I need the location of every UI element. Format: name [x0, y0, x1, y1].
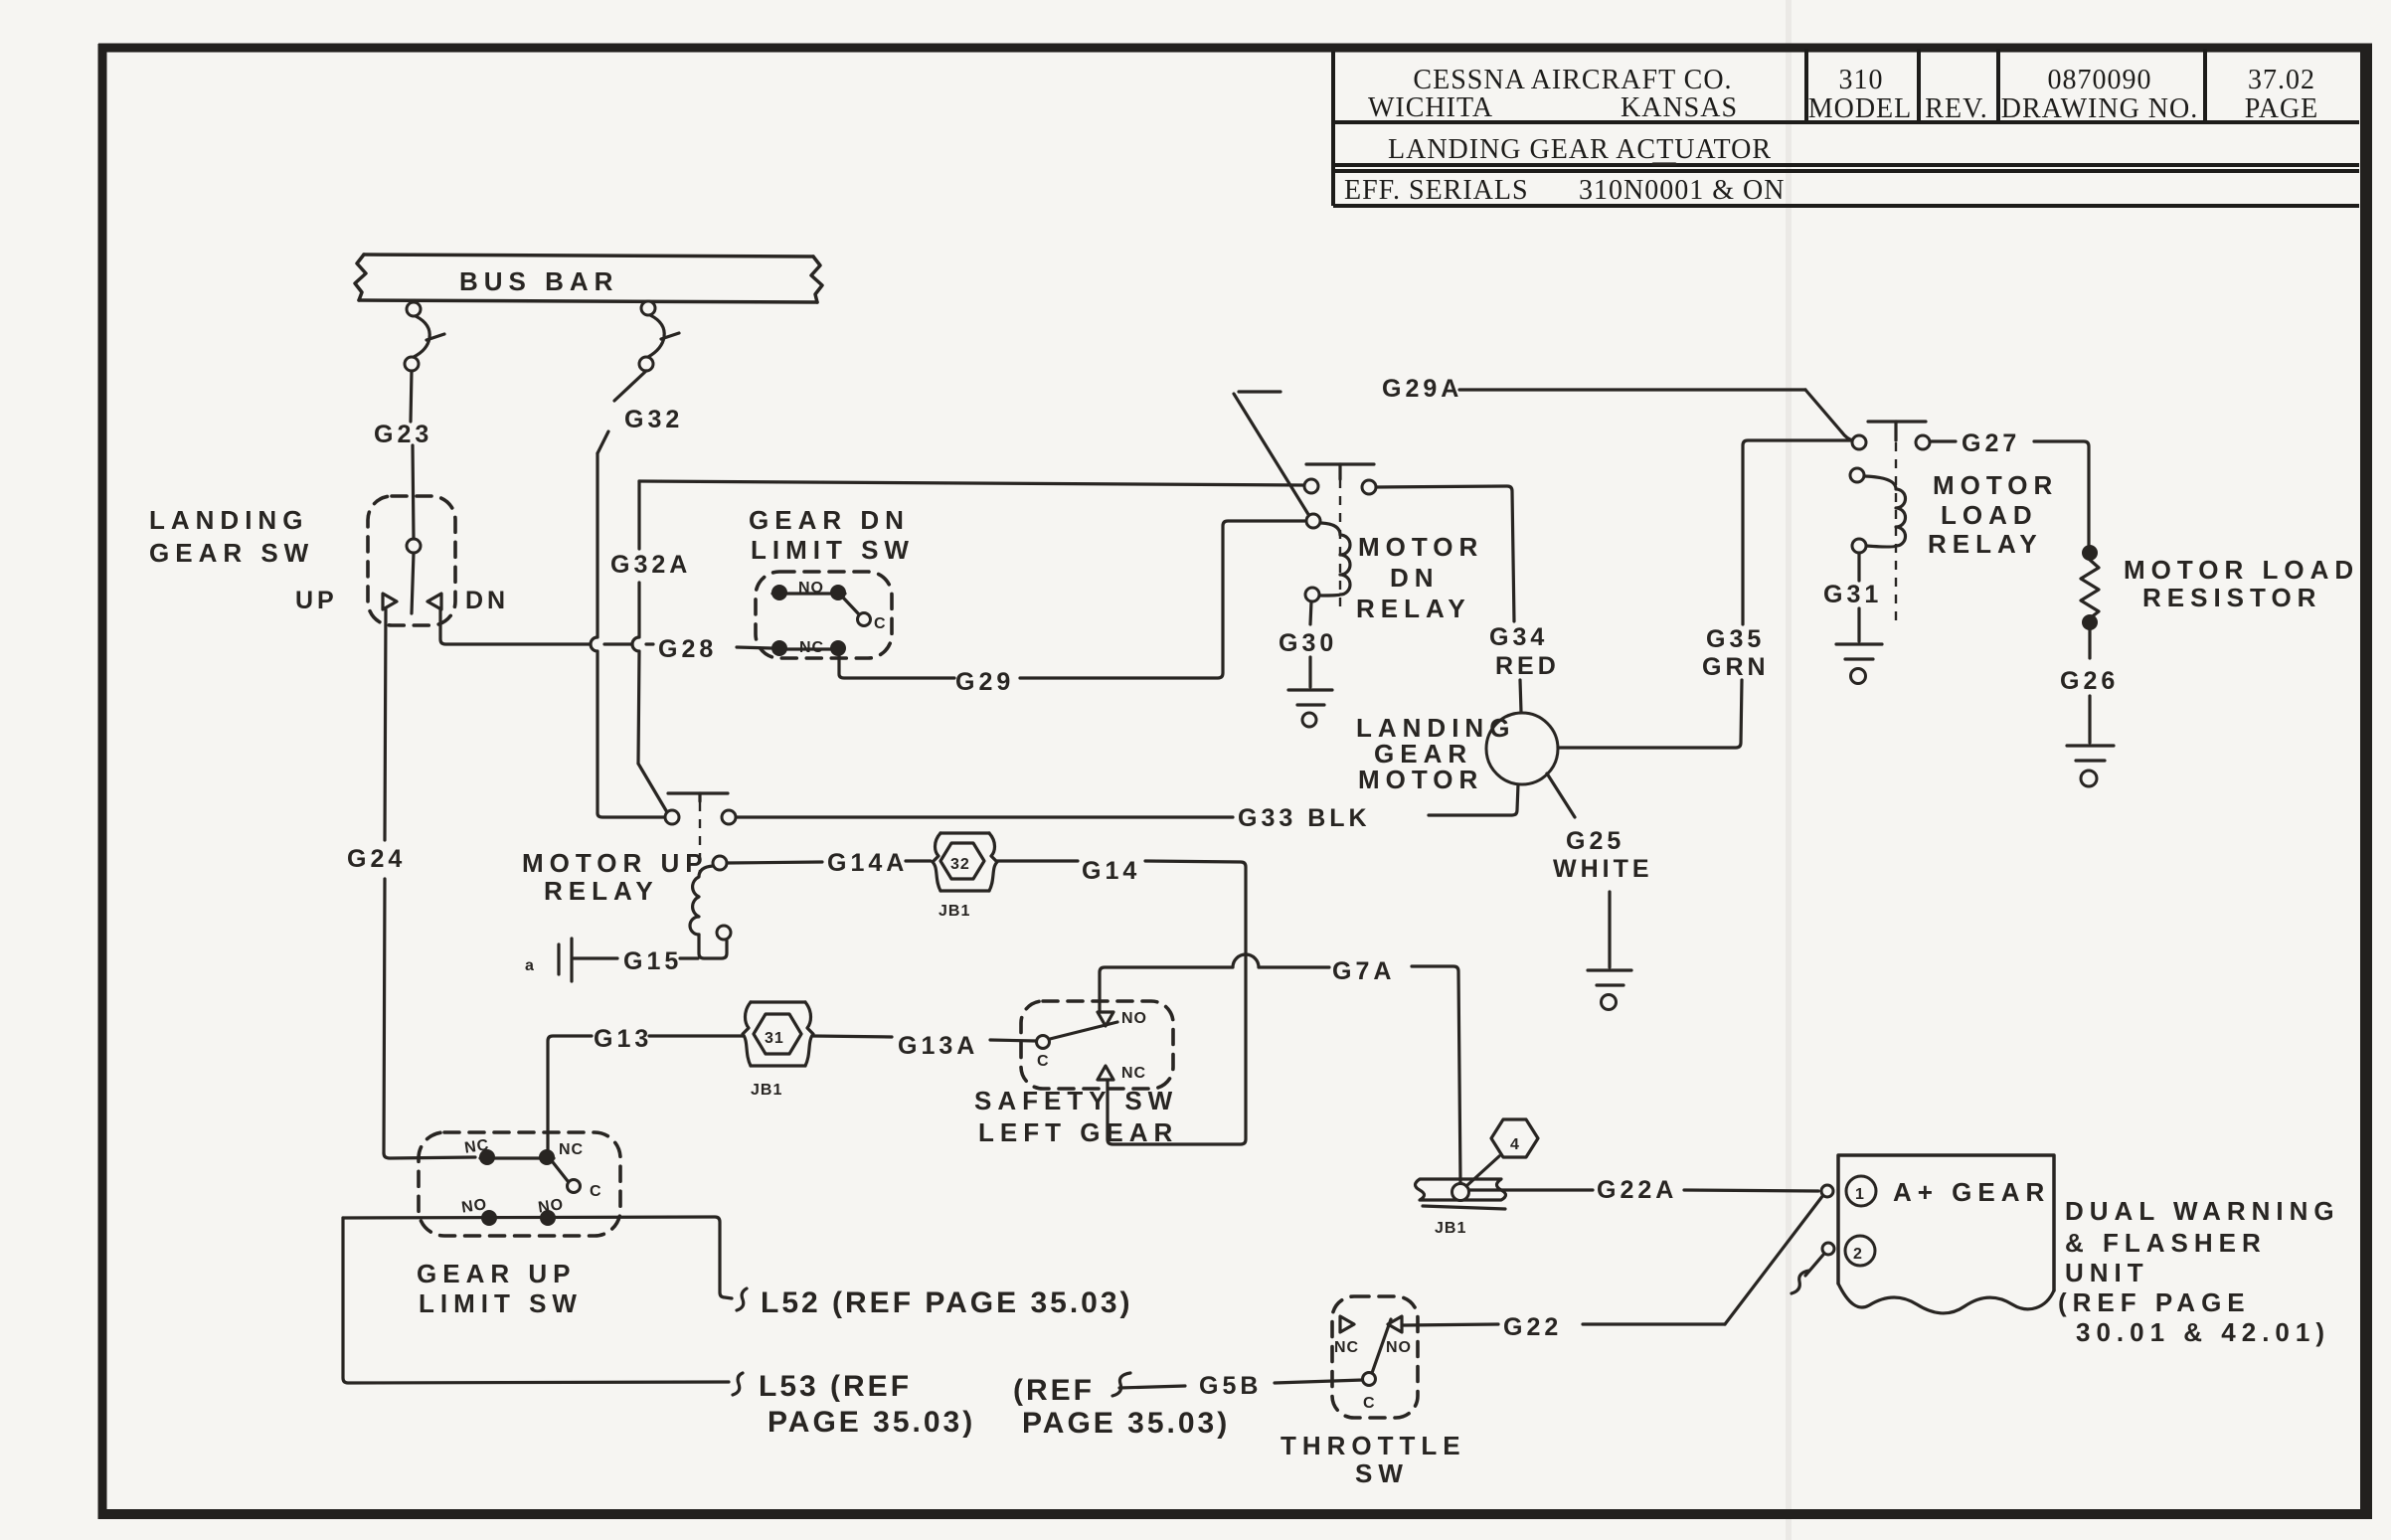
svg-text:GEAR SW: GEAR SW: [149, 538, 314, 568]
wire G25 WHITE: [1547, 773, 1653, 883]
svg-text:G22: G22: [1503, 1313, 1562, 1341]
wire G14A: [727, 849, 931, 877]
svg-text:LEFT GEAR: LEFT GEAR: [978, 1117, 1178, 1147]
svg-text:DUAL WARNING: DUAL WARNING: [2065, 1196, 2340, 1226]
svg-text:GEAR UP: GEAR UP: [417, 1259, 576, 1288]
svg-text:G33 BLK: G33 BLK: [1238, 804, 1371, 832]
svg-text:NC: NC: [463, 1136, 490, 1156]
svg-text:& FLASHER: & FLASHER: [2065, 1228, 2267, 1258]
svg-text:CESSNA AIRCRAFT CO.: CESSNA AIRCRAFT CO.: [1413, 65, 1732, 95]
svg-text:G34: G34: [1489, 623, 1548, 651]
svg-text:LIMIT SW: LIMIT SW: [419, 1288, 583, 1318]
battery and wire G15: [525, 939, 698, 981]
svg-text:C: C: [874, 615, 887, 632]
ground G25: [1588, 892, 1631, 1010]
wire G30: [1279, 601, 1337, 687]
svg-text:G26: G26: [2060, 667, 2119, 695]
svg-text:WICHITA: WICHITA: [1368, 92, 1493, 123]
svg-text:NC: NC: [1121, 1065, 1146, 1082]
landing gear motor: [1356, 713, 1558, 794]
motor load resistor: [2081, 545, 2359, 658]
svg-text:30.01 & 42.01): 30.01 & 42.01): [2076, 1317, 2330, 1347]
junction box JB1 (bottom) with hex 4: [1416, 1119, 1539, 1237]
svg-text:G13: G13: [594, 1025, 652, 1053]
wire G24: [347, 609, 475, 1158]
wire to motor dn relay (from G32A corner): [639, 481, 1303, 485]
landing gear switch: [149, 496, 509, 625]
page fold line: [1786, 0, 1792, 1540]
svg-text:G7A: G7A: [1332, 957, 1395, 985]
svg-text:SAFETY SW: SAFETY SW: [974, 1086, 1178, 1115]
svg-text:G13A: G13A: [898, 1032, 978, 1060]
wire G26: [2060, 667, 2119, 743]
svg-text:UP: UP: [295, 587, 338, 614]
svg-text:G5B: G5B: [1199, 1372, 1262, 1400]
svg-text:RESISTOR: RESISTOR: [2142, 583, 2321, 612]
throttle switch: [1281, 1296, 1466, 1488]
svg-text:1: 1: [1855, 1186, 1865, 1203]
svg-text:L53 (REF: L53 (REF: [759, 1370, 912, 1403]
svg-text:G15: G15: [623, 947, 682, 975]
bus bar: [355, 255, 822, 302]
circuit breaker (left, G23 feed): [405, 302, 444, 371]
svg-text:NO: NO: [1121, 1010, 1147, 1027]
svg-text:MODEL: MODEL: [1808, 93, 1913, 124]
svg-text:a: a: [525, 957, 535, 974]
wire G33 BLK: [737, 784, 1518, 832]
svg-text:MOTOR LOAD: MOTOR LOAD: [2124, 555, 2359, 585]
wire G14: [997, 857, 1246, 1144]
ground G26: [2067, 746, 2114, 786]
svg-text:LANDING GEAR ACTUATOR: LANDING GEAR ACTUATOR: [1388, 134, 1772, 165]
svg-text:NO: NO: [798, 580, 824, 597]
svg-text:A+ GEAR: A+ GEAR: [1893, 1177, 2050, 1207]
junction box JB1 terminal 31: [743, 1002, 813, 1099]
wire G35 GRN: [1558, 440, 1851, 748]
dual warning and flasher unit: [1792, 1155, 2340, 1347]
wire G31: [1823, 553, 1882, 641]
wire G13A: [813, 1032, 1036, 1060]
ref G5B: [1013, 1372, 1363, 1440]
wire G22: [1404, 1195, 1823, 1341]
svg-text:NC: NC: [1334, 1339, 1359, 1356]
svg-text:G29A: G29A: [1382, 375, 1462, 403]
circuit breaker (right, G32 feed): [639, 301, 679, 371]
wire G13: [548, 1025, 744, 1150]
svg-text:G29: G29: [955, 668, 1014, 696]
border frame: [98, 44, 2372, 53]
svg-text:(REF PAGE: (REF PAGE: [2058, 1287, 2251, 1317]
svg-text:310: 310: [1839, 65, 1884, 95]
ground G30: [1288, 690, 1332, 727]
svg-text:0870090: 0870090: [2048, 65, 2152, 95]
svg-text:RELAY: RELAY: [1356, 594, 1471, 623]
wire G29A: [1234, 375, 1853, 516]
svg-text:REV.: REV.: [1925, 93, 1987, 124]
svg-text:RELAY: RELAY: [544, 876, 659, 906]
svg-text:BUS BAR: BUS BAR: [459, 266, 618, 296]
svg-text:(REF: (REF: [1013, 1374, 1095, 1407]
svg-text:4: 4: [1510, 1136, 1520, 1153]
svg-text:G25: G25: [1566, 827, 1624, 855]
svg-text:LANDING: LANDING: [149, 505, 308, 535]
svg-text:G14: G14: [1082, 857, 1140, 885]
svg-text:G22A: G22A: [1597, 1176, 1677, 1204]
svg-text:PAGE 35.03): PAGE 35.03): [1022, 1407, 1230, 1440]
svg-text:NC: NC: [559, 1141, 584, 1158]
svg-text:KANSAS: KANSAS: [1621, 92, 1738, 123]
svg-text:MOTOR: MOTOR: [1358, 532, 1483, 562]
svg-text:DN: DN: [1390, 563, 1440, 593]
svg-text:MOTOR: MOTOR: [1933, 470, 2058, 500]
title block text: [1344, 65, 2318, 206]
junction box JB1 terminal 32: [933, 833, 997, 920]
svg-text:JB1: JB1: [1435, 1220, 1466, 1237]
svg-text:RED: RED: [1495, 652, 1560, 680]
svg-text:310N0001 & ON: 310N0001 & ON: [1579, 175, 1785, 206]
svg-text:LOAD: LOAD: [1941, 500, 2038, 530]
svg-text:31: 31: [765, 1030, 784, 1047]
svg-text:G14A: G14A: [827, 849, 908, 877]
svg-text:NO: NO: [460, 1196, 488, 1216]
svg-text:C: C: [1037, 1053, 1050, 1070]
svg-text:GEAR DN: GEAR DN: [749, 505, 910, 535]
svg-text:PAGE 35.03): PAGE 35.03): [768, 1406, 975, 1439]
svg-text:G23: G23: [374, 421, 432, 448]
svg-text:G30: G30: [1279, 629, 1337, 657]
svg-text:EFF. SERIALS: EFF. SERIALS: [1344, 175, 1529, 206]
svg-text:C: C: [590, 1183, 602, 1200]
wire G23: [374, 371, 432, 539]
motor up relay: [522, 793, 736, 958]
svg-text:SW: SW: [1355, 1458, 1409, 1488]
svg-text:G27: G27: [1962, 429, 2020, 457]
wire G34 RED: [1376, 486, 1560, 712]
svg-text:UNIT: UNIT: [2065, 1258, 2149, 1287]
wire G29: [839, 521, 1304, 696]
svg-text:G24: G24: [347, 845, 406, 873]
svg-text:NO: NO: [1386, 1339, 1412, 1356]
safety switch left gear: [974, 1001, 1178, 1147]
wire G22A: [1469, 1176, 1818, 1204]
svg-text:LIMIT SW: LIMIT SW: [751, 535, 915, 565]
svg-text:37.02: 37.02: [2248, 65, 2315, 95]
svg-text:G35: G35: [1706, 625, 1765, 653]
svg-text:MOTOR: MOTOR: [1358, 765, 1483, 794]
wire G7A: [1100, 954, 1460, 1182]
svg-text:WHITE: WHITE: [1553, 855, 1653, 883]
svg-text:MOTOR UP: MOTOR UP: [522, 848, 709, 878]
svg-text:32: 32: [950, 856, 970, 873]
gear dn limit switch: [749, 505, 915, 658]
wire G27: [1930, 429, 2089, 545]
wire to L53: [343, 1218, 975, 1439]
svg-text:G32A: G32A: [610, 551, 691, 579]
svg-text:NC: NC: [799, 639, 824, 656]
wire G28: [440, 609, 771, 663]
svg-text:RELAY: RELAY: [1928, 529, 2043, 559]
wire G32: [591, 371, 683, 813]
svg-text:NO: NO: [537, 1196, 565, 1216]
svg-text:G31: G31: [1823, 581, 1882, 608]
svg-text:GRN: GRN: [1702, 653, 1770, 681]
svg-text:DRAWING NO.: DRAWING NO.: [2001, 93, 2199, 124]
svg-text:C: C: [1363, 1395, 1376, 1412]
motor load relay: [1850, 422, 2058, 621]
svg-text:DN: DN: [465, 587, 509, 614]
svg-text:L52 (REF PAGE 35.03): L52 (REF PAGE 35.03): [761, 1286, 1133, 1319]
svg-text:G32: G32: [624, 406, 683, 433]
svg-text:JB1: JB1: [751, 1082, 782, 1099]
svg-text:THROTTLE: THROTTLE: [1281, 1431, 1466, 1460]
gear up limit switch: [417, 1132, 620, 1318]
svg-text:JB1: JB1: [939, 903, 970, 920]
title block frame: [1333, 49, 2359, 206]
wire to L52: [343, 1217, 1133, 1319]
motor dn relay: [1304, 464, 1483, 623]
svg-text:PAGE: PAGE: [2245, 93, 2319, 124]
ground G31: [1836, 644, 1882, 684]
wire G32A: [610, 481, 691, 812]
svg-text:2: 2: [1853, 1246, 1863, 1263]
svg-text:G28: G28: [658, 635, 717, 663]
